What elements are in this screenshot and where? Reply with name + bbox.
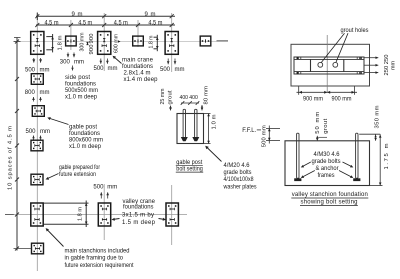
svg-text:50 mm: 50 mm: [315, 112, 321, 134]
dim 250 250: [365, 56, 379, 74]
bolt 1 anchor foot: [181, 137, 188, 141]
grid centreline column 2 upper: [103, 13, 105, 71]
leader bolts -> left bolt lower: [300, 171, 315, 180]
svg-text:x1.0 m deep: x1.0 m deep: [65, 94, 98, 100]
dim 900 900: [297, 86, 358, 95]
arrows 500mm above mid pad: [100, 192, 109, 198]
svg-text:foundations: foundations: [65, 81, 96, 87]
leader gable post -> pad L3: [47, 116, 69, 124]
svg-text:500: 500: [25, 67, 36, 73]
leader 4/M20 -> section corner: [204, 145, 221, 162]
text grout holes: [341, 28, 369, 34]
dim 1.8m at pad A1: [46, 34, 54, 52]
dim 1.75 m: [370, 134, 383, 185]
svg-text:25 mm: 25 mm: [160, 88, 166, 104]
leader grout holes -> circle 1: [321, 33, 344, 62]
grid centreline column 3 lower: [171, 185, 173, 245]
gable post pad L4: [31, 140, 43, 151]
svg-text:900 mm: 900 mm: [303, 96, 323, 102]
svg-text:400: 400: [189, 95, 198, 101]
caption gable post bolt setting: [176, 160, 203, 173]
gable post section concrete: [177, 114, 204, 144]
svg-text:4/M30 4.6: 4/M30 4.6: [314, 152, 341, 158]
svg-text:foundations: foundations: [123, 205, 154, 211]
svg-text:3x1.5 m by: 3x1.5 m by: [122, 213, 154, 219]
svg-text:1.5 m deep: 1.5 m deep: [122, 220, 156, 226]
svg-text:mm: mm: [108, 66, 118, 72]
dim arrows 900/900: [86, 42, 88, 45]
text 500 mm (below A5): [160, 67, 185, 73]
leader grout holes -> circle 2: [336, 33, 348, 62]
svg-text:in gable framing due to: in gable framing due to: [65, 256, 124, 262]
svg-text:gable post: gable post: [176, 160, 202, 166]
label gable prepared for future extension: [59, 165, 100, 178]
leader main stanchions -> pad L6: [44, 227, 63, 247]
svg-text:9 m: 9 m: [145, 12, 156, 18]
dim 1.8m at pad A5: [154, 35, 159, 51]
svg-text:mm: mm: [175, 67, 185, 73]
label main stanchions note: [65, 248, 134, 269]
text 900 mm 900 mm: [303, 96, 352, 102]
dimension line 4x 4.5m: [35, 23, 175, 27]
text 80 mm rotated: [203, 86, 209, 105]
text F.F.L.: [242, 128, 256, 134]
text 10 spaces of 4.5 m rotated: [8, 126, 14, 190]
main stanchion pad L7: [32, 243, 44, 254]
label main crane foundations: [122, 58, 158, 84]
dim 1.8m bottom row: [44, 201, 89, 228]
svg-text:300 mm: 300 mm: [80, 32, 86, 51]
leader gable prepared -> pad L5: [45, 174, 59, 181]
svg-text:400: 400: [180, 95, 189, 101]
label valley crane foundations: [122, 199, 156, 226]
svg-text:80 mm: 80 mm: [203, 86, 209, 105]
gable post pad L3: [32, 106, 44, 117]
label 4/M30 bolts: [312, 152, 341, 179]
side post pad L2: [31, 74, 43, 85]
text 1.0 m rotated: [211, 114, 217, 129]
arrows 500mm bolts pad A3: [99, 59, 108, 64]
svg-text:future extension: future extension: [59, 172, 96, 178]
text 250 250 rotated: [384, 55, 397, 76]
text 50 mm grout rotated: [315, 112, 329, 134]
arrows 300mm bolts pad A2: [67, 53, 76, 58]
grout hole circle 1: [318, 62, 323, 67]
svg-text:x1.0 m deep: x1.0 m deep: [69, 144, 102, 150]
grid centreline column 2 lower: [103, 184, 105, 240]
grid centreline column 3 upper: [171, 13, 173, 72]
leader bolts -> right bolt lower: [339, 171, 354, 180]
main crane foundation pad A1: [31, 32, 44, 55]
arrows 500mm bolts pad A1: [32, 58, 42, 63]
valley foundation block: [285, 141, 370, 186]
leader valley crane -> mid pad: [111, 218, 119, 222]
valley crane pad L6: [31, 203, 43, 226]
detail centreline vertical: [326, 35, 328, 92]
dim text 4.5 m #4: [148, 21, 162, 27]
svg-text:mm: mm: [74, 60, 84, 66]
grout hole circle 2: [333, 62, 338, 67]
leader bolts -> right bolt upper: [343, 162, 354, 169]
dim text 4.5 m #3: [114, 21, 128, 27]
valley crane mid pad B2: [98, 203, 110, 226]
svg-text:500: 500: [160, 67, 171, 73]
svg-text:600 mm: 600 mm: [114, 34, 120, 53]
svg-text:F.F.L.: F.F.L.: [242, 128, 256, 134]
text 400 400: [180, 95, 198, 101]
gable post pad L5: [31, 174, 43, 185]
svg-text:1.0 m: 1.0 m: [211, 114, 217, 129]
bolt 2 anchor foot: [192, 137, 199, 141]
text 500 mm rotated (FFL): [261, 125, 267, 147]
side post pad A4: [133, 36, 144, 46]
svg-text:1.8 m: 1.8 m: [58, 35, 64, 50]
svg-text:grout: grout: [323, 118, 329, 133]
centreline stub right of pad A6: [217, 40, 229, 42]
dim text 9 m (right): [145, 12, 156, 18]
dim 500 FFL: [266, 126, 280, 144]
svg-text:250 250: 250 250: [384, 55, 390, 76]
corner bolt marks: [297, 57, 362, 74]
gable post section bolt 2: [195, 109, 197, 138]
svg-text:mm: mm: [40, 129, 50, 135]
svg-text:2.8x1.4 m: 2.8x1.4 m: [124, 71, 151, 77]
dim text 300 mm rotated (left of A3): [80, 32, 86, 51]
svg-text:main stanchions included: main stanchions included: [65, 248, 130, 254]
svg-text:4.5 m: 4.5 m: [45, 21, 59, 27]
svg-text:mm: mm: [40, 90, 50, 96]
reference line bolt tops: [359, 133, 380, 135]
text 25 mm grout rotated: [160, 88, 174, 104]
svg-text:1.8 m: 1.8 m: [78, 207, 84, 221]
svg-text:9 m: 9 m: [72, 12, 83, 18]
grid centreline row B (horizontal, valley row): [14, 214, 187, 216]
svg-text:500: 500: [93, 185, 104, 191]
arrows 500mm bolts pad A5: [167, 59, 176, 65]
dim text 900 rotated upper: [89, 34, 95, 44]
dim arrows 80mm: [201, 105, 203, 111]
main crane foundation pad A3: [98, 32, 111, 55]
svg-text:4.5 m: 4.5 m: [114, 21, 128, 27]
leader valley crane -> right pad: [159, 218, 167, 222]
svg-text:4.5 m: 4.5 m: [78, 21, 92, 27]
text 1.75 m rotated: [384, 143, 390, 169]
svg-text:grade bolts: grade bolts: [312, 159, 341, 165]
valley bolt right foot: [353, 178, 360, 181]
outer boundary rectangle: [291, 44, 370, 86]
svg-text:900 mm: 900 mm: [332, 96, 352, 102]
svg-text:10 spaces of 4.5 m: 10 spaces of 4.5 m: [8, 126, 14, 190]
svg-text:500: 500: [26, 129, 37, 135]
text 500 mm (below A1): [25, 67, 50, 73]
svg-text:gable post: gable post: [69, 125, 97, 131]
svg-text:350 mm: 350 mm: [375, 105, 381, 128]
dim text 1.8 m rotated (pad A5): [149, 35, 155, 48]
svg-text:4/M20 4.6: 4/M20 4.6: [224, 163, 251, 169]
svg-text:800: 800: [25, 90, 36, 96]
svg-text:main crane: main crane: [122, 58, 154, 64]
dim 350mm: [374, 134, 376, 141]
F.F.L. dash: [257, 129, 261, 131]
dim text 600 mm rotated (right of A3): [114, 34, 120, 53]
dim text 1.8 m rotated (bottom row): [78, 207, 84, 221]
svg-text:foundations: foundations: [122, 64, 153, 70]
leader main crane -> pad A3: [111, 55, 121, 64]
svg-text:side post: side post: [65, 75, 90, 81]
stanchion base plate plan: [294, 57, 364, 74]
grid centreline pad2 vertical: [70, 20, 72, 50]
svg-text:showing bolt setting: showing bolt setting: [301, 200, 358, 206]
side post pad A6: [200, 36, 211, 46]
svg-text:grout: grout: [167, 90, 173, 104]
svg-text:mm: mm: [40, 67, 50, 73]
text 300 mm (below A2): [60, 60, 84, 66]
svg-text:900: 900: [89, 45, 95, 55]
text 350 mm rotated: [375, 105, 381, 128]
grid centreline row A (horizontal, top row): [14, 41, 228, 43]
main crane foundation pad A5: [165, 32, 178, 55]
dim arrows 25mm grout: [169, 106, 171, 111]
svg-text:4.5 m: 4.5 m: [148, 21, 162, 27]
svg-text:900: 900: [89, 34, 95, 44]
svg-text:washer plates: washer plates: [223, 185, 257, 191]
dim text 4.5 m #2: [78, 21, 92, 27]
grid centreline pad4 vertical: [137, 20, 139, 47]
svg-text:500x500 mm: 500x500 mm: [65, 88, 98, 94]
valley bolt left foot: [294, 178, 301, 181]
svg-text:foundations: foundations: [69, 131, 100, 137]
arrow below 300mm text: [71, 66, 73, 71]
dim 400 400 line: [181, 101, 200, 105]
svg-text:4/100x100x8: 4/100x100x8: [224, 177, 255, 183]
svg-text:& anchor: & anchor: [316, 166, 339, 172]
svg-text:frames: frames: [318, 173, 335, 179]
dim 1.0 m: [204, 114, 211, 144]
svg-text:grade bolts: grade bolts: [224, 170, 252, 176]
svg-text:bolt setting: bolt setting: [176, 167, 203, 173]
svg-text:mm: mm: [107, 185, 117, 191]
dim text 9 m (left): [72, 12, 83, 18]
text 500 mm (below A3): [94, 66, 118, 72]
dimension line 9m+9m: [35, 13, 175, 21]
arrows below 500mm L3-L4: [32, 136, 41, 140]
svg-text:grout holes: grout holes: [341, 28, 369, 34]
dim arrows 50mm grout: [316, 136, 327, 141]
left dimension line 10 spaces: [5, 38, 32, 251]
arrows below 800mm: [32, 97, 42, 102]
valley bolt right: [356, 133, 358, 178]
text 800 mm (L2-L3): [25, 90, 50, 96]
dim text 900 rotated lower: [89, 45, 95, 55]
svg-text:500: 500: [94, 66, 105, 72]
svg-text:gable prepared for: gable prepared for: [59, 165, 100, 171]
side post pad A2: [66, 36, 77, 46]
svg-text:x1.4 m deep: x1.4 m deep: [124, 77, 159, 83]
text 500 mm (L3-L4): [26, 129, 51, 135]
leader bolts -> left bolt upper: [300, 162, 311, 169]
dim arrow 600mm: [118, 40, 121, 42]
svg-text:1.75 m: 1.75 m: [384, 143, 390, 169]
svg-text:800x600 mm: 800x600 mm: [69, 138, 103, 144]
svg-text:mm: mm: [391, 61, 397, 70]
grid centreline column 1 (vertical, left): [36, 13, 38, 271]
svg-text:300: 300: [60, 60, 71, 66]
text 500 mm (above mid pad): [93, 185, 117, 191]
svg-text:valley stanchion foundation: valley stanchion foundation: [292, 192, 368, 198]
svg-text:1.8 m: 1.8 m: [149, 35, 155, 48]
label side post foundations: [65, 75, 98, 101]
label 4/M20 bolts: [223, 163, 257, 191]
dim text 4.5 m #1: [45, 21, 59, 27]
dim text 1.8 m rotated (pad A1): [58, 35, 64, 50]
caption valley stanchion foundation: [291, 192, 368, 206]
valley bolt left: [297, 133, 299, 178]
svg-text:future extension requirement: future extension requirement: [65, 263, 134, 269]
valley crane right pad B3: [166, 203, 178, 226]
gable post section bolt 1: [183, 109, 185, 138]
label gable post foundations: [69, 125, 103, 151]
